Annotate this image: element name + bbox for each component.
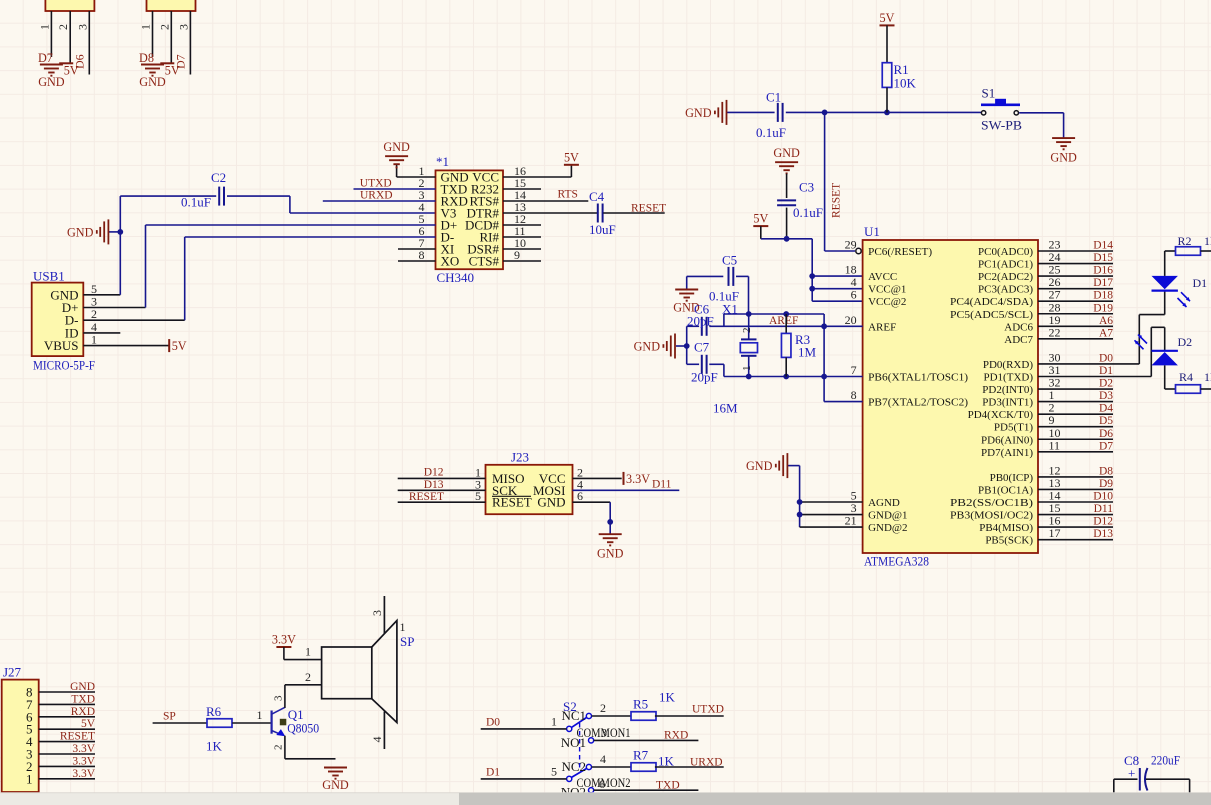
svg-text:NC1: NC1 — [561, 708, 586, 723]
svg-text:3: 3 — [176, 24, 190, 30]
svg-text:PB0(ICP): PB0(ICP) — [990, 472, 1034, 484]
svg-text:20pF: 20pF — [691, 370, 718, 385]
svg-text:PD1(TXD): PD1(TXD) — [984, 372, 1034, 384]
svg-text:4: 4 — [370, 737, 384, 743]
svg-text:PD0(RXD): PD0(RXD) — [983, 359, 1033, 371]
svg-text:D3: D3 — [1099, 390, 1113, 402]
svg-text:1: 1 — [26, 771, 33, 786]
svg-text:PC1(ADC1): PC1(ADC1) — [978, 259, 1033, 271]
svg-text:6: 6 — [577, 489, 583, 503]
svg-text:UTXD: UTXD — [692, 704, 724, 716]
svg-text:D4: D4 — [1099, 403, 1113, 415]
svg-text:1: 1 — [741, 366, 753, 372]
svg-text:RESET: RESET — [409, 491, 444, 503]
svg-text:D15: D15 — [1093, 252, 1113, 264]
svg-text:NO1: NO1 — [561, 735, 586, 750]
svg-text:6: 6 — [599, 777, 605, 791]
svg-text:J23: J23 — [511, 450, 529, 465]
svg-text:C2: C2 — [211, 170, 226, 185]
svg-text:20pF: 20pF — [687, 314, 714, 329]
svg-text:D13: D13 — [424, 479, 444, 491]
svg-text:RESET: RESET — [492, 495, 532, 510]
svg-text:J27: J27 — [3, 665, 22, 680]
svg-text:PC5(ADC5/SCL): PC5(ADC5/SCL) — [950, 309, 1033, 321]
svg-text:PB4(MISO): PB4(MISO) — [979, 522, 1033, 534]
svg-text:1: 1 — [37, 24, 51, 30]
svg-text:VCC@1: VCC@1 — [868, 284, 906, 296]
svg-text:D8: D8 — [139, 51, 154, 65]
svg-text:D6: D6 — [72, 54, 86, 69]
svg-text:8: 8 — [419, 248, 425, 262]
svg-text:C3: C3 — [799, 180, 814, 195]
svg-text:1K: 1K — [1204, 234, 1211, 248]
svg-text:22: 22 — [1049, 325, 1061, 339]
svg-text:*1: *1 — [436, 154, 449, 169]
svg-text:D0: D0 — [486, 717, 500, 729]
svg-text:11: 11 — [1049, 438, 1061, 452]
svg-text:GND: GND — [38, 75, 65, 89]
svg-text:PD3(INT1): PD3(INT1) — [982, 397, 1033, 409]
svg-text:5: 5 — [475, 489, 481, 503]
svg-text:5V: 5V — [81, 718, 96, 730]
svg-text:GND: GND — [67, 225, 94, 239]
svg-text:5: 5 — [551, 765, 557, 779]
svg-text:ATMEGA328: ATMEGA328 — [864, 554, 929, 569]
svg-text:5V: 5V — [880, 11, 895, 25]
svg-text:PD4(XCK/T0): PD4(XCK/T0) — [968, 409, 1034, 421]
svg-text:PB2(SS/OC1B): PB2(SS/OC1B) — [950, 497, 1033, 509]
svg-text:0.1uF: 0.1uF — [793, 205, 823, 220]
svg-text:R6: R6 — [206, 704, 222, 719]
svg-text:PB6(XTAL1/TOSC1): PB6(XTAL1/TOSC1) — [868, 372, 968, 384]
svg-text:GND: GND — [773, 146, 800, 160]
svg-text:VCC@2: VCC@2 — [868, 296, 906, 308]
svg-text:6: 6 — [851, 288, 857, 302]
svg-text:URXD: URXD — [690, 757, 723, 769]
svg-text:D7: D7 — [38, 51, 53, 65]
svg-text:2: 2 — [600, 701, 606, 715]
svg-text:3: 3 — [75, 24, 89, 30]
svg-text:1: 1 — [91, 333, 97, 347]
svg-text:0.1uF: 0.1uF — [181, 195, 211, 210]
svg-text:29: 29 — [845, 238, 857, 252]
svg-text:D11: D11 — [1094, 503, 1114, 515]
svg-text:RXD: RXD — [664, 730, 688, 742]
svg-text:VBUS: VBUS — [44, 338, 79, 353]
svg-text:3.3V: 3.3V — [72, 755, 95, 767]
svg-text:3: 3 — [601, 726, 607, 740]
svg-text:1: 1 — [400, 620, 406, 634]
svg-text:D1: D1 — [486, 767, 500, 779]
svg-text:7: 7 — [851, 363, 857, 377]
svg-text:GND: GND — [746, 459, 773, 473]
svg-text:R4: R4 — [1179, 370, 1193, 384]
svg-text:TXD: TXD — [71, 693, 95, 705]
svg-text:D14: D14 — [1093, 240, 1113, 252]
svg-text:ADC6: ADC6 — [1004, 321, 1033, 333]
svg-text:16M: 16M — [713, 401, 738, 416]
svg-text:S1: S1 — [982, 86, 996, 101]
svg-text:20: 20 — [845, 313, 857, 327]
svg-text:PB5(SCK): PB5(SCK) — [985, 535, 1033, 547]
svg-text:R7: R7 — [633, 748, 649, 763]
svg-text:C5: C5 — [722, 253, 737, 268]
svg-text:AGND: AGND — [868, 497, 900, 509]
svg-text:D0: D0 — [1099, 352, 1113, 364]
svg-text:GND: GND — [70, 681, 95, 693]
svg-text:PD7(AIN1): PD7(AIN1) — [981, 447, 1033, 459]
svg-text:PC6(/RESET): PC6(/RESET) — [868, 246, 932, 258]
svg-text:21: 21 — [845, 514, 857, 528]
svg-text:R5: R5 — [633, 697, 648, 712]
svg-text:D7: D7 — [1099, 440, 1113, 452]
svg-text:1: 1 — [139, 24, 153, 30]
svg-text:D2: D2 — [1178, 335, 1193, 349]
svg-text:GND: GND — [597, 547, 624, 561]
svg-text:XO: XO — [441, 254, 460, 269]
svg-text:PD2(INT0): PD2(INT0) — [982, 384, 1033, 396]
svg-text:3.3V: 3.3V — [272, 633, 296, 647]
svg-text:UTXD: UTXD — [360, 178, 392, 190]
svg-text:1K: 1K — [206, 739, 223, 754]
svg-text:D8: D8 — [1099, 465, 1113, 477]
svg-text:1: 1 — [551, 715, 557, 729]
svg-text:10K: 10K — [894, 76, 917, 91]
svg-text:PC4(ADC4/SDA): PC4(ADC4/SDA) — [950, 296, 1033, 308]
svg-text:AVCC: AVCC — [868, 271, 897, 283]
svg-text:ADC7: ADC7 — [1004, 334, 1033, 346]
svg-text:GND@2: GND@2 — [868, 522, 907, 534]
svg-text:D2: D2 — [1099, 378, 1113, 390]
svg-text:MICRO-5P-F: MICRO-5P-F — [33, 358, 95, 373]
svg-text:RESET: RESET — [60, 731, 95, 743]
svg-text:10uF: 10uF — [589, 222, 616, 237]
svg-text:RESET: RESET — [631, 203, 666, 215]
svg-text:GND: GND — [322, 778, 349, 792]
svg-text:5V: 5V — [564, 150, 579, 164]
svg-text:17: 17 — [1049, 526, 1061, 540]
svg-text:RESET: RESET — [831, 183, 843, 218]
svg-text:D9: D9 — [1099, 478, 1113, 490]
svg-text:RXD: RXD — [71, 706, 95, 718]
svg-text:PB3(MOSI/OC2): PB3(MOSI/OC2) — [950, 510, 1033, 522]
svg-text:3.3V: 3.3V — [626, 472, 650, 486]
svg-text:AREF: AREF — [868, 321, 896, 333]
svg-text:RTS: RTS — [558, 189, 578, 201]
svg-text:2: 2 — [741, 328, 753, 334]
svg-text:A7: A7 — [1099, 327, 1113, 339]
svg-text:GND@1: GND@1 — [868, 510, 907, 522]
svg-text:3: 3 — [272, 695, 284, 701]
svg-text:2: 2 — [157, 24, 171, 30]
svg-text:PD6(AIN0): PD6(AIN0) — [981, 434, 1033, 446]
svg-text:220uF: 220uF — [1151, 754, 1180, 768]
svg-text:1: 1 — [305, 645, 311, 659]
svg-text:2: 2 — [272, 745, 284, 751]
svg-text:D10: D10 — [1093, 491, 1113, 503]
svg-text:GND: GND — [1050, 151, 1077, 165]
svg-text:D12: D12 — [1093, 516, 1113, 528]
svg-text:+: + — [1128, 766, 1135, 781]
svg-text:4: 4 — [600, 752, 606, 766]
svg-text:SP: SP — [163, 711, 176, 723]
svg-text:D11: D11 — [652, 479, 672, 491]
svg-text:GND: GND — [537, 495, 565, 510]
svg-text:AREF: AREF — [769, 315, 798, 327]
svg-text:2: 2 — [56, 24, 70, 30]
svg-text:X1: X1 — [722, 302, 738, 317]
svg-text:GND: GND — [139, 75, 166, 89]
svg-text:D5: D5 — [1099, 415, 1113, 427]
svg-text:PB7(XTAL2/TOSC2): PB7(XTAL2/TOSC2) — [868, 397, 968, 409]
svg-text:1K: 1K — [658, 754, 675, 769]
svg-text:D6: D6 — [1099, 428, 1113, 440]
svg-text:GND: GND — [383, 140, 410, 154]
svg-text:1M: 1M — [798, 345, 817, 360]
svg-text:CH340: CH340 — [437, 270, 475, 285]
svg-text:C4: C4 — [589, 189, 605, 204]
svg-text:D16: D16 — [1093, 265, 1113, 277]
svg-text:TXD: TXD — [656, 780, 680, 792]
svg-text:Q8050: Q8050 — [287, 721, 319, 736]
svg-text:D7: D7 — [173, 54, 187, 69]
svg-text:3: 3 — [370, 610, 384, 616]
svg-text:5V: 5V — [172, 339, 187, 353]
svg-text:0.1uF: 0.1uF — [756, 125, 786, 140]
svg-text:A6: A6 — [1099, 315, 1113, 327]
svg-text:R2: R2 — [1178, 234, 1192, 248]
svg-text:GND: GND — [634, 340, 661, 354]
svg-text:USB1: USB1 — [33, 269, 65, 284]
svg-text:U1: U1 — [864, 224, 880, 239]
svg-text:1K: 1K — [659, 690, 676, 705]
svg-text:1K: 1K — [1204, 370, 1211, 384]
svg-text:8: 8 — [851, 388, 857, 402]
svg-text:D18: D18 — [1093, 290, 1113, 302]
svg-text:D19: D19 — [1093, 302, 1113, 314]
svg-text:NC2: NC2 — [561, 759, 586, 774]
svg-text:D12: D12 — [424, 467, 444, 479]
svg-text:3.3V: 3.3V — [72, 743, 95, 755]
svg-text:SW-PB: SW-PB — [981, 118, 1022, 133]
svg-text:PC2(ADC2): PC2(ADC2) — [978, 271, 1033, 283]
svg-text:D13: D13 — [1093, 528, 1113, 540]
svg-text:C1: C1 — [766, 90, 781, 105]
svg-text:C7: C7 — [694, 340, 710, 355]
svg-text:GND: GND — [685, 106, 712, 120]
svg-text:1: 1 — [257, 708, 263, 722]
svg-text:PB1(OC1A): PB1(OC1A) — [978, 484, 1033, 496]
svg-text:PD5(T1): PD5(T1) — [994, 422, 1033, 434]
svg-text:9: 9 — [514, 248, 520, 262]
svg-text:5V: 5V — [753, 212, 768, 226]
svg-text:PC0(ADC0): PC0(ADC0) — [978, 246, 1033, 258]
svg-text:D1: D1 — [1099, 365, 1113, 377]
svg-text:2: 2 — [305, 670, 311, 684]
svg-text:URXD: URXD — [360, 189, 393, 201]
svg-text:CTS#: CTS# — [469, 254, 500, 269]
svg-text:SP: SP — [400, 634, 414, 649]
svg-text:PC3(ADC3): PC3(ADC3) — [978, 284, 1033, 296]
svg-text:3.3V: 3.3V — [72, 768, 95, 780]
svg-text:D1: D1 — [1193, 276, 1208, 290]
svg-text:D17: D17 — [1093, 277, 1113, 289]
